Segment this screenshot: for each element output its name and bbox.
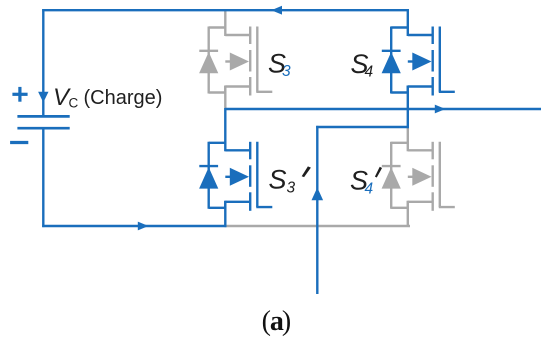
transistor S3p source lead: [224, 201, 226, 227]
transistor S4p: body diode: [382, 142, 408, 209]
label S3 prime: [269, 165, 311, 197]
transistor S3: body diode: [199, 27, 225, 94]
left vertical wire (top): [42, 9, 44, 116]
label S4: [351, 49, 374, 81]
svg-text:3: 3: [287, 180, 296, 197]
transistor S4: channel, gate and body arrow: [408, 27, 455, 96]
transistor S3p: body diode: [199, 142, 225, 209]
transistor S4: body diode: [382, 27, 408, 94]
transistor S3: channel, gate and body arrow: [225, 27, 272, 96]
svg-text:4: 4: [365, 180, 374, 197]
jog wire from input vertical to S4 source: [316, 126, 409, 128]
label S3: [268, 49, 291, 81]
transistor S3p: channel, gate and body arrow: [225, 142, 272, 211]
svg-text:C: C: [69, 96, 79, 111]
minus polarity mark: [10, 141, 28, 144]
current arrow on middle rail (pointing right): [435, 105, 446, 114]
left vertical wire (bottom): [42, 128, 44, 227]
gray bottom rail wire (S3p source to S4p source): [225, 225, 410, 227]
current arrow on input vertical (pointing up): [312, 188, 324, 201]
transistor S4p drain lead: [407, 126, 409, 151]
svg-text:S: S: [269, 165, 287, 195]
label VC (Charge): [53, 84, 162, 111]
transistor S4 source lead (down through mid rail to jog): [407, 86, 409, 129]
label S4 prime: [350, 165, 382, 197]
current arrow on bottom left rail (pointing right): [138, 222, 149, 231]
transistor S3p drain lead: [224, 108, 226, 151]
caption (a): [262, 306, 292, 337]
svg-text:): ): [282, 306, 291, 337]
capacitor VC plate 2: [17, 127, 69, 130]
transistor S4p: channel, gate and body arrow: [408, 142, 455, 211]
current arrow on left wire (pointing down): [38, 92, 48, 103]
transistor S3 drain lead: [224, 10, 226, 36]
capacitor VC plate 1: [17, 115, 69, 118]
current arrow on top rail (pointing left): [271, 6, 282, 15]
svg-text:3: 3: [282, 63, 291, 80]
input vertical wire: [316, 126, 318, 294]
transistor S4p source lead: [407, 201, 409, 227]
top rail wire: [42, 9, 409, 11]
middle output rail wire: [225, 108, 541, 110]
bottom left rail wire: [42, 225, 226, 227]
plus polarity mark: [12, 87, 27, 102]
transistor S4 drain lead: [407, 9, 409, 36]
svg-text:(Charge): (Charge): [84, 87, 163, 109]
transistor S3 source lead: [224, 86, 226, 109]
svg-text:4: 4: [365, 64, 374, 81]
